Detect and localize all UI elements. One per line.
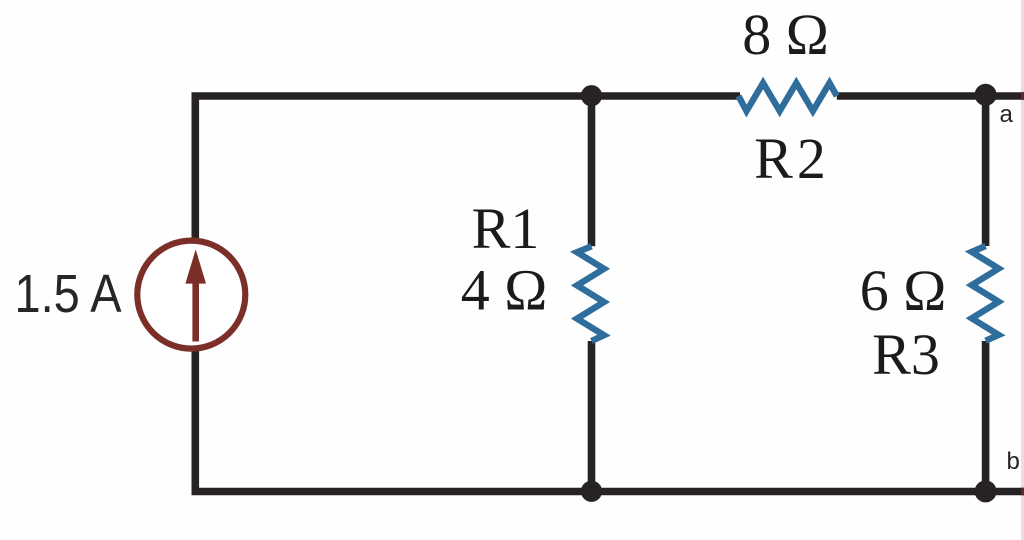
svg-text:4 Ω: 4 Ω <box>461 258 548 323</box>
junction dot: node b <box>975 480 997 502</box>
svg-text:R3: R3 <box>872 322 940 387</box>
wire: left vertical below current source to bottom rail, and bottom rail to right image edge <box>195 351 1024 492</box>
resistor R3 (vertical zigzag, 6 ohm) <box>972 246 999 341</box>
current source I = 1.5 A (circle with upward arrow) <box>137 241 245 349</box>
svg-text:b: b <box>1007 448 1020 475</box>
svg-text:1.5 A: 1.5 A <box>15 264 122 324</box>
svg-text:R1: R1 <box>472 196 540 261</box>
svg-text:a: a <box>1000 101 1014 128</box>
wire: right vertical lower segment (R3 to node b) <box>982 341 990 492</box>
svg-text:R2: R2 <box>754 126 830 191</box>
wire: middle vertical upper segment (top rail to R1) <box>588 96 596 246</box>
wire: middle vertical lower segment (R1 to bottom rail) <box>588 341 596 492</box>
resistor R2 (horizontal zigzag, 8 ohm) <box>739 83 837 111</box>
wire: top rail from R2 right lead to right image edge <box>837 92 1024 100</box>
scan artifact: stripe over bottom rail <box>1021 488 1024 496</box>
junction dot: bottom of R1 branch <box>581 481 602 502</box>
svg-text:6 Ω: 6 Ω <box>860 258 947 323</box>
wire: top rail from left corner to R2 left lead <box>195 96 740 240</box>
svg-text:8 Ω: 8 Ω <box>742 2 829 67</box>
scan artifact: stripe over top rail <box>1021 92 1024 100</box>
wire: right vertical upper segment (node a to R3) <box>982 96 990 246</box>
junction dot: node a <box>975 84 997 106</box>
resistor R1 (vertical zigzag, 4 ohm) <box>577 246 604 341</box>
scan artifact: pale red stripe at right image edge <box>1021 0 1024 540</box>
junction dot: top of R1 branch <box>581 85 602 106</box>
